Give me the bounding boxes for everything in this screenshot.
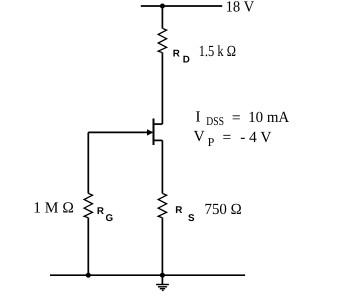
- node RG ground junction: [86, 273, 91, 278]
- wire RG to ground rail: [87, 218, 89, 276]
- wire gate down to RG: [87, 132, 89, 193]
- svg-text:750 Ω: 750 Ω: [205, 201, 242, 218]
- svg-text:1.5 k Ω: 1.5 k Ω: [199, 43, 236, 60]
- wire drain rail to RD: [161, 6, 163, 28]
- node drain junction: [160, 4, 165, 9]
- wire ground rail: [50, 274, 245, 276]
- resistor RS: [158, 193, 166, 217]
- transistor Q1 gate arrow: [147, 129, 153, 135]
- ground symbol: [156, 285, 169, 291]
- svg-text:D: D: [183, 55, 190, 66]
- svg-text:=: =: [232, 110, 241, 127]
- svg-text:S: S: [188, 213, 195, 224]
- resistor RG: [84, 193, 92, 217]
- wire ground stub: [161, 275, 163, 284]
- svg-text:P: P: [208, 135, 215, 149]
- wire RS to ground rail: [161, 218, 163, 276]
- svg-text:18 V: 18 V: [226, 0, 255, 15]
- node RS ground junction: [160, 273, 165, 278]
- wire RD to drain: [161, 53, 163, 125]
- svg-text:G: G: [106, 213, 114, 224]
- transistor Q1 source lead: [154, 139, 163, 141]
- svg-text:- 4 V: - 4 V: [240, 129, 272, 146]
- svg-text:10 mA: 10 mA: [248, 109, 290, 126]
- svg-text:1 M Ω: 1 M Ω: [33, 199, 74, 216]
- svg-text:V: V: [194, 128, 206, 145]
- svg-text:R: R: [97, 206, 104, 217]
- svg-text:R: R: [175, 205, 182, 216]
- wire gate: [88, 131, 148, 133]
- svg-text:R: R: [173, 48, 180, 59]
- transistor Q1 channel bar: [153, 119, 155, 146]
- resistor RD: [158, 28, 166, 52]
- svg-text:=: =: [223, 129, 232, 146]
- svg-text:DSS: DSS: [206, 114, 224, 128]
- wire VDD top rail: [141, 5, 222, 7]
- svg-text:I: I: [195, 108, 200, 125]
- wire source to RS: [161, 140, 163, 193]
- transistor Q1 drain lead: [154, 123, 163, 125]
